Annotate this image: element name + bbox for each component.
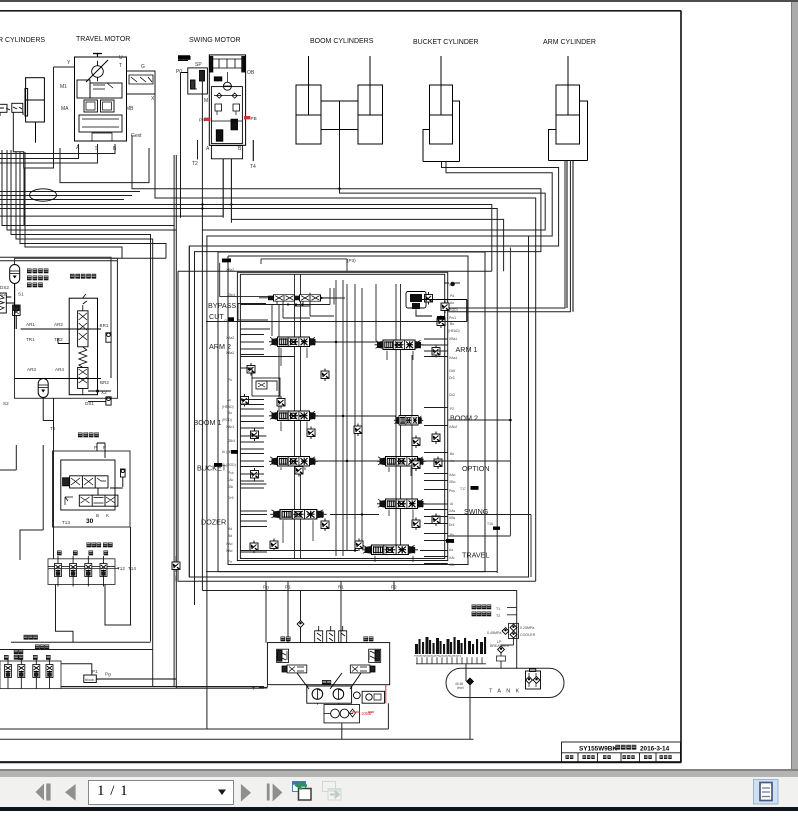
junction dots on long pair [201, 188, 340, 210]
svg-text:MB: MB [126, 106, 134, 112]
wire pump case drain bus [0, 703, 388, 729]
brake block labels [0, 285, 109, 431]
svg-text:XBs: XBs [449, 516, 456, 520]
svg-text:Ao: Ao [227, 398, 231, 402]
svg-text:10bar: 10bar [361, 711, 372, 716]
svg-text:BREATHER: BREATHER [490, 644, 510, 648]
svg-text:BOOM 1: BOOM 1 [194, 418, 222, 427]
svg-text:Ck2: Ck2 [449, 393, 455, 397]
wire pump T drain [259, 685, 268, 687]
R cylinder (left edge) [25, 78, 44, 143]
boom1 top aux group [252, 378, 280, 396]
bucket cylinder piping [423, 101, 460, 162]
tank port comb [415, 637, 486, 654]
block bottom port labels [263, 258, 397, 590]
arm1 holding valve group [406, 282, 467, 322]
top heading labels [0, 36, 596, 46]
svg-text:BYPASS: BYPASS [208, 301, 236, 310]
block-to-pump feeders [153, 581, 517, 688]
svg-text:XAt: XAt [449, 556, 455, 560]
top wire bundle: cylinder/motor feeds wrapping right side [0, 73, 570, 729]
svg-text:Bi (ROD): Bi (ROD) [222, 463, 236, 467]
svg-text:(P3): (P3) [347, 258, 356, 263]
T1 T2 cooler column [507, 608, 519, 639]
svg-text:Bo: Bo [450, 452, 454, 456]
svg-text:OPTION: OPTION [462, 464, 490, 473]
DOZER spool [270, 510, 326, 520]
svg-text:SWING MOTOR: SWING MOTOR [189, 37, 241, 44]
svg-text:Pz: Pz [228, 560, 232, 564]
svg-text:XBa2: XBa2 [226, 268, 234, 272]
svg-text:Ao: Ao [450, 301, 454, 305]
svg-text:A: A [206, 146, 210, 152]
left cut component at edge [0, 293, 15, 313]
svg-text:SY155W9BK: SY155W9BK [579, 746, 617, 753]
boom cylinder right [358, 56, 383, 144]
svg-text:P2: P2 [450, 407, 454, 411]
svg-text:Dr5: Dr5 [228, 496, 234, 500]
filter ellipse [30, 189, 57, 201]
svg-text:TR2: TR2 [54, 337, 63, 342]
wire tank return bus [0, 723, 474, 739]
title block [562, 742, 681, 762]
SWING spool [377, 499, 426, 509]
svg-text:Ai: Ai [450, 502, 453, 506]
svg-text:(ROD): (ROD) [222, 418, 232, 422]
svg-text:CUT: CUT [209, 312, 224, 321]
svg-text:(HEAD): (HEAD) [448, 329, 460, 333]
svg-text:BR2: BR2 [100, 380, 109, 385]
ARM2 spool [269, 337, 318, 347]
pilot filter group below [324, 705, 360, 723]
svg-text:ARM 1: ARM 1 [456, 345, 478, 354]
pilot stubs below spools [281, 348, 413, 562]
svg-text:T A N K: T A N K [489, 689, 521, 695]
svg-text:ARM 2: ARM 2 [209, 342, 231, 351]
svg-text:XAd: XAd [226, 542, 233, 546]
wire boom feed wrap [202, 130, 545, 231]
svg-text:SP: SP [195, 62, 202, 68]
svg-text:T15: T15 [487, 522, 493, 526]
svg-text:XBo: XBo [449, 480, 456, 484]
svg-text:Bd: Bd [228, 534, 232, 538]
row piping [220, 248, 531, 578]
svg-text:Dr3: Dr3 [449, 376, 455, 380]
svg-text:T2: T2 [496, 614, 500, 618]
svg-text:Pd: Pd [450, 294, 454, 298]
bypass cut valve A [268, 295, 299, 302]
bottom-left valve row [0, 661, 61, 689]
svg-text:BUCKET CYLINDER: BUCKET CYLINDER [413, 39, 479, 46]
right regulator [350, 649, 380, 673]
drawing frame [0, 11, 681, 763]
bypass cut valve B [294, 295, 325, 302]
svg-text:T6: T6 [50, 426, 56, 431]
full row work lines [206, 293, 467, 564]
svg-text:TRAVEL MOTOR: TRAVEL MOTOR [76, 36, 130, 43]
svg-text:Gext: Gext [131, 133, 142, 139]
svg-text:XBa2: XBa2 [226, 351, 234, 355]
svg-text:DS2: DS2 [0, 285, 9, 290]
wire travel X line [155, 94, 536, 581]
svg-text:P1: P1 [92, 669, 98, 674]
left bundle corners [0, 150, 176, 688]
svg-text:T2: T2 [192, 161, 198, 167]
pilot reducing valve row T12 [48, 559, 115, 585]
pump circles [297, 673, 385, 703]
svg-text:(HEAD): (HEAD) [222, 405, 234, 409]
svg-text:block P: block P [85, 677, 98, 682]
OPTION spool [377, 457, 426, 467]
svg-text:XAk: XAk [227, 478, 234, 482]
svg-text:T13: T13 [62, 520, 70, 525]
svg-text:T4: T4 [250, 164, 256, 170]
svg-text:B: B [96, 513, 99, 518]
svg-text:DS1: DS1 [85, 401, 94, 406]
service brake valve group [15, 258, 118, 398]
wire bucket line2 wrap [207, 162, 552, 729]
central block nested boundary [178, 236, 536, 605]
svg-text:T14: T14 [128, 566, 136, 571]
svg-text:R CYLINDERS: R CYLINDERS [0, 37, 45, 44]
svg-text:T17: T17 [460, 487, 466, 491]
svg-text:level: level [457, 686, 464, 690]
svg-text:M: M [204, 98, 208, 104]
wire long pair 2 [0, 209, 497, 272]
svg-text:BR1: BR1 [100, 323, 109, 328]
svg-text:XAa2: XAa2 [226, 336, 234, 340]
travel motor [75, 54, 156, 142]
travel motor port legs [0, 67, 149, 226]
red pipes [352, 685, 386, 712]
wire arm drop 1 [448, 161, 565, 309]
svg-text:Y: Y [67, 60, 71, 66]
svg-text:AR4: AR4 [55, 367, 64, 372]
svg-text:G: G [141, 64, 145, 70]
svg-text:XBd: XBd [226, 549, 233, 553]
wire left bus 1 [2, 150, 174, 687]
accumulator S2 [38, 379, 48, 398]
wire gext wrap [132, 135, 541, 605]
svg-text:XBa1: XBa1 [449, 337, 457, 341]
svg-text:S3: S3 [0, 292, 6, 297]
svg-text:0.45MPa: 0.45MPa [487, 631, 501, 635]
block inner long verticals [261, 259, 412, 559]
bucket cylinder [430, 56, 453, 144]
svg-text:M1: M1 [60, 84, 67, 90]
svg-text:Dr4: Dr4 [449, 523, 455, 527]
small S1 valve [13, 305, 21, 329]
accumulator S1 [10, 265, 20, 284]
svg-text:T1: T1 [496, 607, 500, 611]
svg-text:2016-3-14: 2016-3-14 [640, 746, 670, 753]
left lower wire runs [0, 445, 264, 688]
svg-text:OB: OB [247, 70, 255, 76]
BUCKET spool [269, 457, 318, 467]
TRAVEL spool [362, 545, 418, 555]
block P [84, 675, 176, 683]
svg-text:XBp1: XBp1 [227, 293, 235, 297]
ARM1 spool [375, 340, 424, 350]
svg-text:TRAVEL: TRAVEL [462, 551, 489, 560]
svg-text:0.25MPa: 0.25MPa [520, 626, 534, 630]
svg-text:XBk: XBk [227, 485, 234, 489]
svg-text:Pg: Pg [105, 672, 111, 677]
svg-text:P: P [94, 445, 97, 450]
svg-text:T: T [252, 686, 255, 691]
wire long vertical x202 [202, 73, 516, 591]
svg-text:DOZER: DOZER [201, 518, 226, 527]
left edge cut valves [0, 103, 23, 150]
svg-text:B: B [238, 146, 242, 152]
function row labels [194, 301, 490, 560]
svg-text:BOOM CYLINDERS: BOOM CYLINDERS [310, 38, 374, 45]
pump assembly [267, 643, 389, 685]
svg-text:TR1: TR1 [26, 337, 35, 342]
brake main valve [15, 294, 112, 405]
arm cylinder [556, 56, 580, 144]
svg-text:(ROD): (ROD) [448, 308, 458, 312]
svg-text:Bo: Bo [450, 322, 454, 326]
svg-text:MA: MA [61, 106, 69, 112]
svg-text:AR2: AR2 [54, 322, 63, 327]
tank [446, 668, 564, 697]
boom cylinders piping [321, 101, 358, 193]
strainer in tank [526, 669, 541, 690]
wire left bus 4 [16, 152, 153, 650]
svg-text:T: T [119, 63, 122, 69]
svg-text:Ck: Ck [224, 319, 228, 323]
svg-text:XBb1: XBb1 [227, 439, 235, 443]
svg-text:Pru1: Pru1 [449, 316, 456, 320]
svg-text:X: X [151, 96, 155, 102]
wire arm drop 2 [448, 161, 570, 312]
svg-text:AR1: AR1 [26, 322, 35, 327]
auxiliary relief/check valves [247, 363, 255, 376]
wire bucket line1 wrap [189, 162, 558, 578]
BOOM1 spool [269, 411, 318, 421]
svg-text:30: 30 [86, 518, 94, 525]
svg-text:ARM CYLINDER: ARM CYLINDER [543, 39, 596, 46]
svg-text:Ck5: Ck5 [449, 369, 455, 373]
svg-text:BOOM 2: BOOM 2 [450, 414, 478, 423]
svg-text:XAb2: XAb2 [449, 425, 457, 429]
svg-text:COOLER: COOLER [520, 633, 536, 637]
swing pilot box [178, 57, 207, 218]
svg-text:Ao: Ao [449, 548, 453, 552]
svg-text:Pu: Pu [228, 378, 232, 382]
svg-text:Pns: Pns [449, 489, 455, 493]
wire left bus 3 [11, 150, 151, 642]
svg-text:XAs: XAs [449, 509, 456, 513]
svg-text:XAb1: XAb1 [226, 425, 234, 429]
svg-text:AR3: AR3 [27, 367, 36, 372]
svg-text:S2: S2 [3, 401, 9, 406]
block inlet valve bottom-left [172, 560, 180, 573]
svg-text:XBt: XBt [449, 563, 455, 567]
svg-text:PB: PB [251, 116, 257, 121]
BOOM2 spool [394, 416, 423, 426]
swing motor [198, 55, 254, 223]
svg-text:P0: P0 [176, 69, 182, 75]
svg-text:T5T9T3T15T16T10T7T12T13T2T14T6: T5T9T3T15T16T10T7T12T13T2T14T6T4T1 [414, 655, 462, 658]
wire BR1 feed [0, 257, 111, 334]
swing motor legs to bus [0, 140, 504, 271]
oil exchange valve block [53, 443, 131, 527]
svg-text:U: U [119, 55, 123, 61]
svg-text:XAa1: XAa1 [449, 356, 457, 360]
wire left bus 6 [25, 152, 122, 258]
junction dots [287, 303, 512, 551]
svg-text:S1: S1 [18, 292, 24, 297]
boom cylinder left [296, 56, 321, 144]
svg-text:Ad: Ad [228, 527, 232, 531]
svg-text:Ps: Ps [450, 533, 454, 537]
left regulator [277, 649, 307, 673]
svg-text:XAo: XAo [449, 473, 456, 477]
svg-text:P: P [103, 445, 106, 450]
wire BR2 feed [0, 261, 117, 381]
wire long pair 1 [0, 205, 492, 272]
svg-text:X2: X2 [101, 390, 107, 395]
arm cylinder piping [549, 101, 588, 312]
wire left bus 2 [7, 150, 176, 688]
svg-text:Bo: Bo [228, 411, 232, 415]
svg-text:Ao: Ao [450, 459, 454, 463]
svg-text:Pck: Pck [228, 471, 234, 475]
